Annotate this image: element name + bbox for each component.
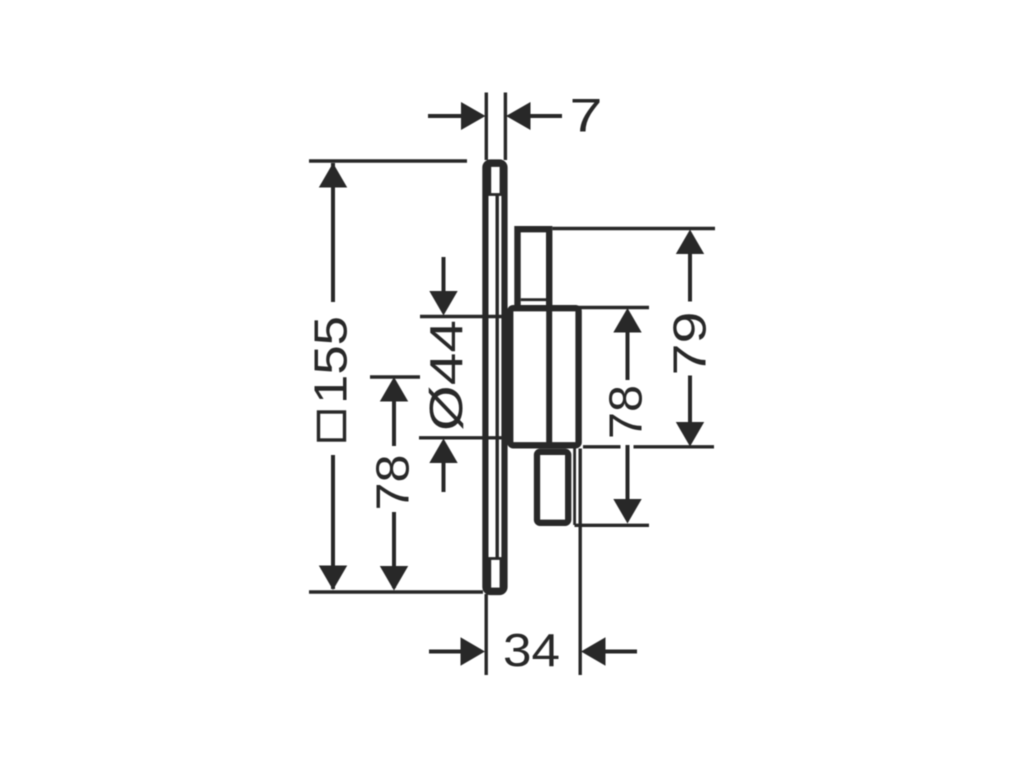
wall plate outer — [485, 163, 504, 593]
arrowhead dim7 right — [506, 102, 531, 130]
plate sleeve line — [496, 195, 499, 558]
svg-text:7: 7 — [570, 89, 603, 142]
dim 79 top ext — [553, 227, 716, 230]
dim 34 left ext — [485, 594, 488, 675]
arrowhead d44 bottom — [429, 439, 457, 464]
svg-text:78: 78 — [367, 455, 419, 511]
dim 79 bottom ext a — [583, 445, 621, 448]
dim 155 stem lower — [331, 455, 335, 589]
dim d44 bottom stem — [442, 462, 446, 492]
dim 79 stem lower — [688, 376, 692, 424]
arrowhead 78 left top — [380, 377, 408, 402]
dim 79 stem upper — [688, 252, 692, 302]
dim 155 stem upper — [331, 163, 335, 302]
dim d44 top stem — [442, 257, 446, 292]
arrowhead 78 right top — [613, 308, 641, 333]
dim 155 top ext — [309, 159, 467, 162]
dim 78 right bottom ext — [575, 524, 650, 527]
main body — [510, 308, 578, 445]
svg-text:Ø44: Ø44 — [420, 320, 472, 431]
body inner divider — [546, 308, 552, 445]
dim 7 left tail — [428, 114, 462, 118]
lower block — [537, 452, 568, 523]
dim 34 left tail — [429, 650, 461, 654]
dim 34 right ext — [579, 449, 582, 676]
upper block bottom line — [521, 298, 546, 301]
dim 78 right stem upper — [626, 331, 630, 380]
dim 7 ext line right — [504, 93, 507, 161]
dim 34 right tail — [605, 650, 637, 654]
arrowhead 155 bottom — [319, 566, 347, 591]
arrowhead 79 top — [676, 230, 704, 255]
arrowhead 34 right — [581, 637, 606, 665]
dim 7 right tail — [530, 114, 563, 118]
arrowhead 34 left — [461, 637, 486, 665]
arrowhead 155 top — [319, 163, 347, 188]
dim 78 right top ext — [578, 306, 649, 309]
arrowhead d44 top — [429, 291, 457, 316]
dim 78 left stem lower — [392, 512, 396, 588]
body back step line — [573, 448, 576, 525]
dim 155/78 bottom ext — [309, 590, 483, 593]
dim 78 left stem upper — [392, 400, 396, 446]
svg-text:78: 78 — [600, 385, 652, 439]
svg-text:34: 34 — [503, 624, 560, 676]
dim d44 bottom ext — [419, 436, 502, 439]
square symbol of 155 label — [319, 412, 345, 440]
dim 79 bottom ext b — [634, 445, 715, 448]
dim 78 left top ext — [370, 375, 420, 378]
upper block U1 — [518, 229, 550, 307]
dim d44 top ext — [420, 315, 503, 318]
svg-text:79: 79 — [664, 312, 716, 376]
arrowhead dim7 left — [461, 102, 486, 130]
svg-text:155: 155 — [305, 316, 357, 404]
plate inner bottom box — [490, 559, 501, 590]
arrowhead 78 left bottom — [380, 566, 408, 591]
arrowhead 79 bottom — [676, 422, 704, 447]
dim 7 ext line left — [485, 93, 488, 161]
dim 78 right stem lower — [626, 445, 630, 500]
arrowhead 78 right bottom — [613, 499, 641, 524]
plate inner top box — [490, 166, 501, 195]
